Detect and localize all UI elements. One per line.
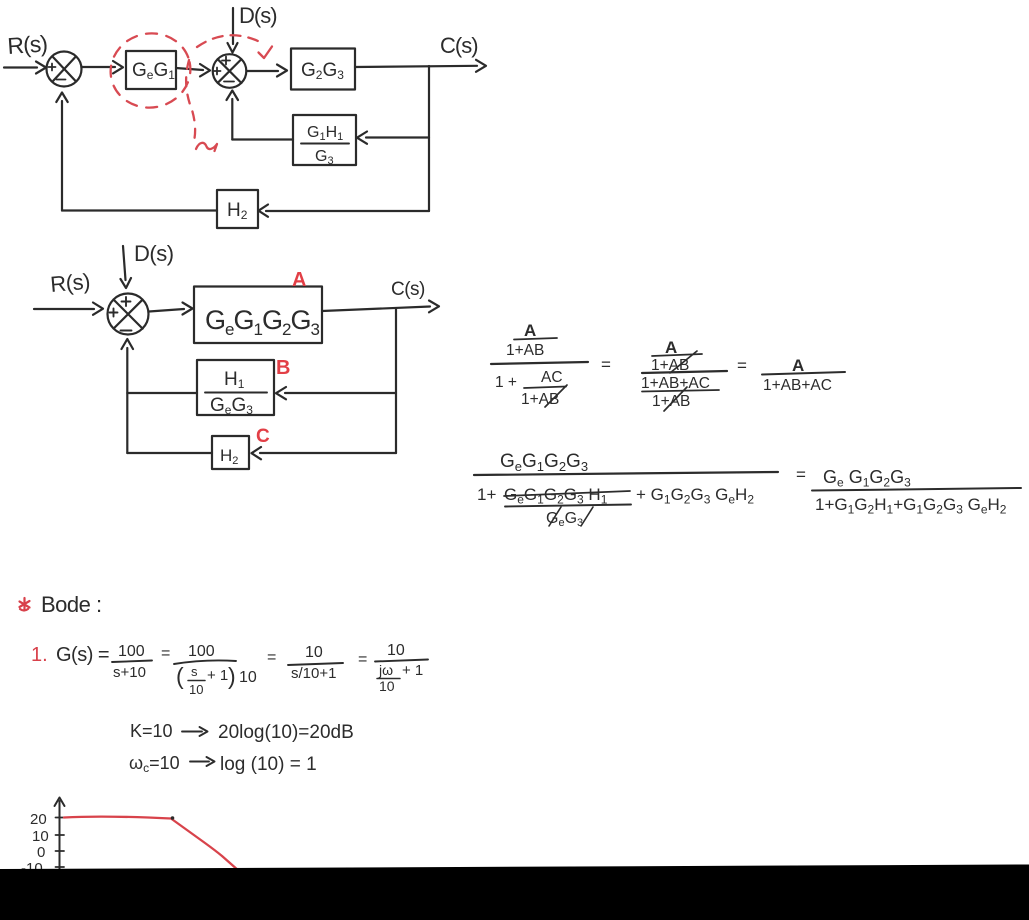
- block B H1/GeG3: [197, 360, 274, 415]
- block A GeG1G2G3: [194, 287, 322, 344]
- svg-text:GeG3: GeG3: [210, 395, 253, 417]
- svg-text:1 +: 1 +: [495, 374, 517, 391]
- wire S1 to block GeG1: [82, 66, 115, 68]
- red dashed arc over S2: [197, 35, 258, 47]
- svg-text:GeG3: GeG3: [546, 510, 583, 529]
- svg-text:1+AB+AC: 1+AB+AC: [763, 377, 832, 394]
- svg-text:10: 10: [239, 669, 257, 686]
- bode plot y axis: [59, 801, 61, 870]
- wire branch node vertical: [428, 66, 430, 211]
- svg-text:10: 10: [387, 642, 405, 659]
- svg-text:B: B: [276, 357, 290, 379]
- svg-text:ωc=10: ωc=10: [129, 753, 180, 775]
- svg-text:G3: G3: [315, 148, 334, 167]
- svg-text:log (10) = 1: log (10) = 1: [220, 754, 317, 775]
- svg-text:G1H1: G1H1: [307, 124, 343, 143]
- svg-text:1+AB: 1+AB: [652, 393, 690, 410]
- svg-text:G(s) =: G(s) =: [56, 644, 109, 666]
- black letterbox bar: [0, 865, 1029, 920]
- svg-text:100: 100: [118, 643, 145, 660]
- svg-text:=: =: [737, 356, 747, 375]
- wire branch vertical diagram2: [395, 309, 397, 454]
- wire S2 to block G2G3: [247, 70, 278, 72]
- eq1 expr2 main bar: [642, 371, 727, 373]
- wire input arrow to summer S1: [4, 66, 37, 68]
- svg-text:0: 0: [37, 844, 45, 861]
- wire bottom feedback from branch to H2: [266, 210, 429, 212]
- eq1 expr1 main bar: [491, 362, 588, 364]
- wire block B to junction vertical: [127, 392, 197, 394]
- red squiggle hook: [196, 143, 217, 151]
- wire D(s) arrow into summer: [123, 246, 126, 280]
- wire input arrow diagram2: [34, 308, 94, 310]
- wire S3 to block A: [149, 309, 184, 312]
- wire G1H1/G3 to under S2: [232, 138, 293, 140]
- wire D(s) arrow down into S2: [232, 8, 234, 44]
- svg-text:1+: 1+: [477, 485, 496, 504]
- wire block C to junction vertical: [127, 452, 212, 454]
- svg-text:10: 10: [379, 678, 395, 694]
- svg-text:AC: AC: [541, 369, 563, 386]
- block H2: [217, 190, 258, 228]
- red bode magnitude curve: [64, 817, 239, 871]
- svg-text:20: 20: [30, 811, 47, 828]
- S1 plus sign: [49, 64, 56, 71]
- svg-text:100: 100: [188, 643, 215, 660]
- svg-text:10: 10: [189, 682, 203, 697]
- wire branch to G1H1/G3 arrow: [366, 136, 429, 138]
- block G2G3: [291, 49, 355, 90]
- summing junction S2: [213, 54, 247, 88]
- wire output diagram2: [322, 307, 430, 312]
- svg-text:=: =: [267, 649, 276, 666]
- svg-text:C: C: [256, 426, 270, 447]
- svg-text:=: =: [161, 645, 170, 662]
- S3 minus bottom: [121, 330, 132, 332]
- summing junction S1: [47, 52, 82, 87]
- svg-text:=: =: [358, 651, 367, 668]
- svg-text:): ): [228, 663, 236, 689]
- svg-text:A: A: [665, 338, 677, 357]
- axis ticks: [56, 817, 65, 819]
- svg-text:1.: 1.: [31, 644, 48, 666]
- wire GeG1 to summer S2: [176, 68, 203, 70]
- svg-text:Bode :: Bode :: [41, 592, 102, 617]
- svg-text:+ G1G2G3 GeH2: + G1G2G3 GeH2: [636, 485, 754, 507]
- svg-text:D(s): D(s): [134, 241, 174, 266]
- svg-text:GeG1G2G3: GeG1G2G3: [205, 305, 319, 339]
- red check mark: [259, 47, 273, 59]
- svg-text:H1: H1: [224, 369, 245, 391]
- svg-text:A: A: [792, 356, 804, 375]
- svg-text:A: A: [292, 269, 306, 291]
- svg-text:C(s): C(s): [440, 33, 478, 58]
- svg-text:s+10: s+10: [113, 664, 146, 681]
- svg-text:C(s): C(s): [391, 279, 425, 300]
- wire H2 to under S1: [62, 209, 217, 211]
- red dashed descender curve: [186, 60, 195, 141]
- svg-text:GeG1: GeG1: [132, 60, 175, 82]
- svg-text:K=10: K=10: [130, 721, 173, 741]
- svg-text:H2: H2: [227, 200, 248, 222]
- svg-text:A: A: [524, 321, 536, 340]
- svg-text:(: (: [176, 663, 184, 689]
- red asterisk bullet: [20, 598, 30, 611]
- wire branch to block B arrow: [285, 392, 396, 394]
- wire output line with arrow: [355, 66, 477, 67]
- S2 minus bottom: [224, 81, 234, 83]
- block C H2: [212, 436, 249, 469]
- svg-text:R(s): R(s): [49, 269, 91, 297]
- svg-text:1+G1G2H1+G1G2G3 GeH2: 1+G1G2H1+G1G2G3 GeH2: [815, 495, 1007, 517]
- svg-text:=: =: [601, 355, 611, 374]
- wire branch to block C arrow: [260, 452, 396, 454]
- svg-text:GeG1G2G3: GeG1G2G3: [500, 451, 588, 474]
- svg-text:1+AB+AC: 1+AB+AC: [641, 375, 710, 392]
- svg-text:Ge G1G2G3: Ge G1G2G3: [823, 467, 911, 490]
- S2 plus top: [222, 57, 230, 65]
- svg-text:D(s): D(s): [239, 3, 277, 28]
- eq2 main bar: [474, 472, 778, 475]
- S3 plus top: [122, 297, 131, 306]
- eq2 rhs bar: [812, 488, 1021, 491]
- svg-text:20log(10)=20dB: 20log(10)=20dB: [218, 722, 354, 743]
- wire vertical up into S3: [126, 348, 128, 453]
- svg-text:10: 10: [305, 644, 323, 661]
- svg-text:+ 1: + 1: [402, 662, 423, 679]
- summing junction S3: [108, 294, 149, 335]
- svg-text:10: 10: [32, 828, 49, 845]
- svg-text:=: =: [796, 465, 806, 484]
- red dashed circle around GeG1: [104, 26, 198, 115]
- svg-text:jω: jω: [378, 662, 393, 678]
- svg-text:+ 1: + 1: [207, 667, 228, 684]
- corner dot: [171, 816, 175, 820]
- svg-text:H2: H2: [220, 446, 238, 467]
- svg-text:1+AB: 1+AB: [506, 342, 544, 359]
- block G1H1/G3: [293, 115, 356, 165]
- svg-text:s: s: [191, 664, 198, 679]
- block GeG1: [126, 51, 176, 89]
- S2 plus left: [214, 68, 221, 75]
- S1 minus sign: [57, 79, 66, 81]
- svg-text:G2G3: G2G3: [301, 60, 344, 82]
- svg-text:R(s): R(s): [7, 30, 48, 59]
- svg-text:s/10+1: s/10+1: [291, 665, 336, 682]
- S3 plus left: [110, 309, 118, 317]
